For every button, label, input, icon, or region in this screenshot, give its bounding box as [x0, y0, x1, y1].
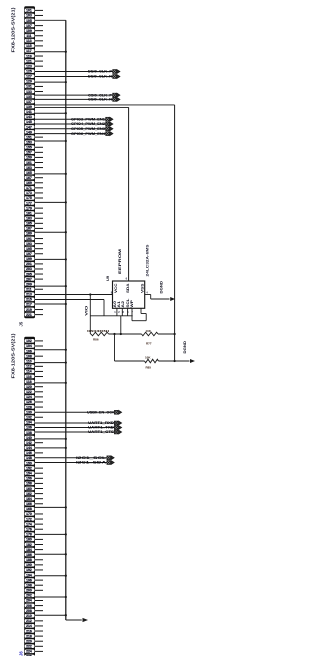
svg-text:141: 141 — [26, 110, 32, 114]
svg-text:154: 154 — [26, 471, 32, 475]
svg-text:170: 170 — [26, 512, 32, 516]
svg-text:171: 171 — [26, 186, 32, 190]
svg-text:207: 207 — [26, 277, 32, 281]
svg-text:106: 106 — [26, 349, 32, 353]
svg-text:UART1_RXD: UART1_RXD — [88, 421, 115, 425]
svg-text:GPIO6_PWM_EN4: GPIO6_PWM_EN4 — [71, 132, 105, 136]
svg-text:131: 131 — [26, 85, 32, 89]
svg-text:118: 118 — [26, 380, 32, 384]
svg-text:121: 121 — [26, 59, 32, 63]
svg-text:I2C1_SDA: I2C1_SDA — [76, 461, 107, 465]
svg-text:189: 189 — [26, 232, 32, 236]
svg-text:117: 117 — [26, 49, 32, 53]
svg-text:127: 127 — [26, 75, 32, 79]
svg-text:191: 191 — [26, 237, 32, 241]
svg-text:GPIO4_PWM_EN2: GPIO4_PWM_EN2 — [71, 122, 105, 126]
svg-text:109: 109 — [26, 29, 32, 33]
svg-text:173: 173 — [26, 191, 32, 195]
svg-text:116: 116 — [26, 375, 32, 379]
svg-text:EEPROM: EEPROM — [117, 248, 122, 274]
svg-text:152: 152 — [26, 466, 32, 470]
svg-text:WP: WP — [130, 299, 134, 308]
svg-text:113: 113 — [26, 39, 32, 43]
svg-text:122: 122 — [26, 390, 32, 394]
svg-text:137: 137 — [26, 100, 32, 104]
svg-text:150: 150 — [26, 461, 32, 465]
svg-text:105: 105 — [26, 19, 32, 23]
svg-text:146: 146 — [26, 451, 32, 455]
svg-text:151: 151 — [26, 135, 32, 139]
svg-text:107: 107 — [26, 24, 32, 28]
svg-text:155: 155 — [26, 146, 32, 150]
svg-text:196: 196 — [26, 578, 32, 582]
svg-text:188: 188 — [26, 558, 32, 562]
svg-text:166: 166 — [26, 502, 32, 506]
svg-text:125: 125 — [26, 69, 32, 73]
svg-text:204: 204 — [26, 599, 32, 603]
svg-text:181: 181 — [26, 211, 32, 215]
svg-text:140: 140 — [26, 436, 32, 440]
svg-text:10K: 10K — [146, 329, 152, 333]
svg-text:DSI0_CLK_P: DSI0_CLK_P — [88, 70, 113, 74]
svg-text:183: 183 — [26, 217, 32, 221]
svg-text:178: 178 — [26, 533, 32, 537]
svg-text:176: 176 — [26, 527, 32, 531]
svg-text:213: 213 — [26, 293, 32, 297]
svg-text:139: 139 — [26, 105, 32, 109]
svg-text:103: 103 — [26, 14, 32, 18]
svg-text:0603DNI: 0603DNI — [87, 329, 109, 333]
svg-text:195: 195 — [26, 247, 32, 251]
svg-text:187: 187 — [26, 227, 32, 231]
svg-text:194: 194 — [26, 573, 32, 577]
svg-text:114: 114 — [26, 370, 32, 374]
svg-text:24LC32A-I/MS: 24LC32A-I/MS — [146, 243, 150, 276]
svg-text:179: 179 — [26, 206, 32, 210]
svg-text:119: 119 — [26, 54, 32, 58]
svg-text:144: 144 — [26, 446, 32, 450]
svg-text:UART1_TXD: UART1_TXD — [88, 426, 115, 430]
svg-text:R77: R77 — [146, 342, 152, 346]
svg-text:124: 124 — [26, 395, 32, 399]
svg-text:SDA: SDA — [126, 283, 130, 293]
svg-text:159: 159 — [26, 156, 32, 160]
svg-text:163: 163 — [26, 166, 32, 170]
svg-text:158: 158 — [26, 482, 32, 486]
svg-text:164: 164 — [26, 497, 32, 501]
svg-text:167: 167 — [26, 176, 32, 180]
svg-text:200: 200 — [26, 589, 32, 593]
svg-text:217: 217 — [26, 303, 32, 307]
svg-text:208: 208 — [26, 609, 32, 613]
svg-text:162: 162 — [26, 492, 32, 496]
svg-text:209: 209 — [26, 282, 32, 286]
svg-text:211: 211 — [26, 288, 32, 292]
svg-text:134: 134 — [26, 421, 32, 425]
svg-text:J5: J5 — [19, 321, 24, 326]
svg-text:168: 168 — [26, 507, 32, 511]
svg-text:193: 193 — [26, 242, 32, 246]
svg-text:126: 126 — [26, 400, 32, 404]
svg-text:102: 102 — [26, 339, 32, 343]
svg-text:172: 172 — [26, 517, 32, 521]
svg-text:129: 129 — [26, 80, 32, 84]
svg-text:157: 157 — [26, 151, 32, 155]
svg-text:145: 145 — [26, 120, 32, 124]
svg-text:U9: U9 — [105, 275, 110, 281]
svg-text:210: 210 — [26, 614, 32, 618]
svg-text:133: 133 — [26, 90, 32, 94]
svg-text:GPIO3_PWM_EN1: GPIO3_PWM_EN1 — [71, 117, 105, 121]
svg-text:A2: A2 — [121, 301, 125, 308]
svg-text:115: 115 — [26, 44, 32, 48]
svg-text:112: 112 — [26, 365, 32, 369]
svg-text:153: 153 — [26, 140, 32, 144]
svg-text:DGND: DGND — [160, 280, 164, 293]
svg-text:104: 104 — [26, 344, 32, 348]
svg-text:220: 220 — [26, 639, 32, 643]
svg-text:216: 216 — [26, 629, 32, 633]
svg-text:138: 138 — [26, 431, 32, 435]
svg-text:UART1_CTS: UART1_CTS — [88, 430, 115, 434]
svg-text:149: 149 — [26, 130, 32, 134]
svg-text:182: 182 — [26, 543, 32, 547]
svg-text:143: 143 — [26, 115, 32, 119]
svg-text:120: 120 — [26, 385, 32, 389]
svg-text:CSI0_CLK_N: CSI0_CLK_N — [88, 98, 113, 102]
svg-text:205: 205 — [26, 272, 32, 276]
svg-text:128: 128 — [26, 405, 32, 409]
svg-text:198: 198 — [26, 583, 32, 587]
svg-text:R86: R86 — [93, 338, 99, 342]
svg-text:177: 177 — [26, 201, 32, 205]
svg-text:197: 197 — [26, 252, 32, 256]
svg-text:214: 214 — [26, 624, 32, 628]
svg-text:VCC: VCC — [114, 283, 118, 293]
svg-text:169: 169 — [26, 181, 32, 185]
svg-text:186: 186 — [26, 553, 32, 557]
svg-text:108: 108 — [26, 354, 32, 358]
svg-text:184: 184 — [26, 548, 32, 552]
svg-text:201: 201 — [26, 262, 32, 266]
svg-text:185: 185 — [26, 222, 32, 226]
svg-text:156: 156 — [26, 477, 32, 481]
svg-text:10K: 10K — [145, 355, 151, 359]
svg-text:148: 148 — [26, 456, 32, 460]
svg-text:132: 132 — [26, 416, 32, 420]
svg-text:VSS: VSS — [140, 284, 144, 294]
svg-text:110: 110 — [26, 360, 32, 364]
svg-text:212: 212 — [26, 619, 32, 623]
svg-text:101: 101 — [26, 9, 32, 13]
svg-text:165: 165 — [26, 171, 32, 175]
svg-text:USB0_EN_OC#: USB0_EN_OC# — [87, 411, 114, 415]
svg-text:215: 215 — [26, 298, 32, 302]
svg-text:136: 136 — [26, 426, 32, 430]
svg-text:FX8-120S-SV(21): FX8-120S-SV(21) — [11, 7, 16, 53]
svg-text:221: 221 — [26, 313, 32, 317]
svg-text:203: 203 — [26, 267, 32, 271]
svg-text:142: 142 — [26, 441, 32, 445]
svg-text:DGND: DGND — [183, 340, 187, 353]
svg-text:J6: J6 — [19, 651, 24, 656]
svg-text:190: 190 — [26, 563, 32, 567]
svg-text:I2C1_SCL: I2C1_SCL — [76, 456, 106, 460]
svg-text:R85: R85 — [146, 366, 152, 370]
svg-text:160: 160 — [26, 487, 32, 491]
svg-text:218: 218 — [26, 634, 32, 638]
svg-text:175: 175 — [26, 196, 32, 200]
svg-text:130: 130 — [26, 410, 32, 414]
svg-text:180: 180 — [26, 538, 32, 542]
svg-text:FX8-120S-SV(21): FX8-120S-SV(21) — [11, 333, 16, 379]
svg-text:222: 222 — [26, 645, 32, 649]
svg-text:123: 123 — [26, 64, 32, 68]
svg-text:VIO: VIO — [85, 305, 89, 316]
svg-text:DSI0_CLK_N: DSI0_CLK_N — [88, 75, 113, 79]
svg-text:111: 111 — [26, 34, 31, 38]
svg-text:199: 199 — [26, 257, 32, 261]
svg-text:161: 161 — [26, 161, 32, 165]
svg-text:224: 224 — [26, 650, 32, 654]
svg-text:135: 135 — [26, 95, 32, 99]
svg-text:192: 192 — [26, 568, 32, 572]
svg-text:219: 219 — [26, 308, 32, 312]
svg-text:174: 174 — [26, 522, 32, 526]
svg-text:147: 147 — [26, 125, 32, 129]
svg-text:202: 202 — [26, 594, 32, 598]
svg-text:206: 206 — [26, 604, 32, 608]
svg-text:GPIO5_PWM_EN3: GPIO5_PWM_EN3 — [71, 127, 105, 131]
